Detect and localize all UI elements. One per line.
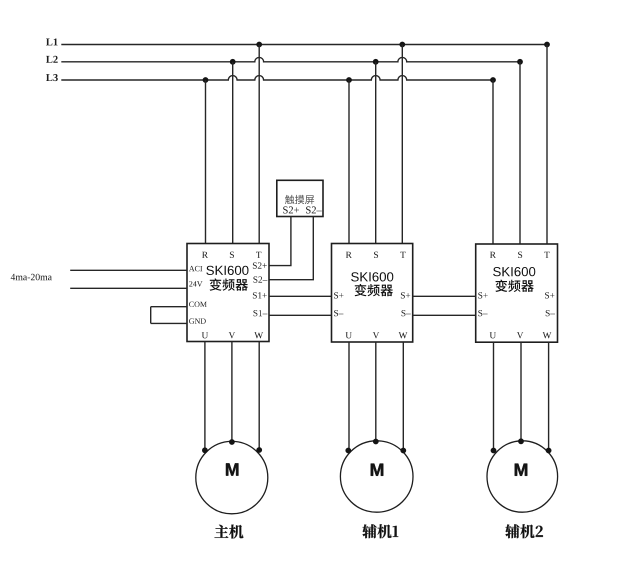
node: M2 W terminal bbox=[400, 448, 406, 454]
motor M3 bbox=[487, 441, 558, 512]
label: U1 变频器 bbox=[210, 278, 248, 290]
label L2 bbox=[46, 56, 58, 63]
wire: panel S2- to U1 S2- bbox=[269, 217, 313, 280]
pin label U3 S+ left bbox=[478, 292, 487, 298]
wire: 24V input bbox=[70, 287, 187, 289]
pin label U1 ACI bbox=[189, 266, 202, 271]
wire: U1 W to M1 bbox=[258, 342, 260, 451]
label: U3 变频器 bbox=[495, 280, 533, 292]
node: junction L2/U3-S bbox=[517, 59, 523, 65]
label: M2 M bbox=[371, 464, 383, 476]
pin label U3 T bbox=[544, 252, 549, 258]
pin label U3 S+ right bbox=[545, 292, 554, 298]
wire: L1 phase rail bbox=[61, 44, 547, 46]
inverter U1 box bbox=[187, 244, 269, 342]
inverter U3 box bbox=[476, 244, 558, 342]
wire: U1 S1- to U2 S- bbox=[269, 314, 332, 316]
label L1 bbox=[46, 39, 58, 46]
pin label U1 S bbox=[230, 252, 234, 258]
pin label U1 S1+ bbox=[253, 292, 267, 298]
wire: U2 V to M2 bbox=[375, 342, 377, 442]
label: M1 M bbox=[226, 463, 238, 475]
wire: U2 W to M2 bbox=[402, 342, 404, 451]
wire: L1 to U1 T bbox=[258, 45, 260, 244]
pin label U2 W bbox=[399, 332, 408, 338]
node: M3 V terminal bbox=[518, 438, 524, 444]
label: U2 SKI600 bbox=[351, 272, 393, 281]
motor M1 bbox=[196, 441, 268, 513]
wire: L3 phase rail bbox=[61, 76, 493, 80]
label: 4ma-20ma bbox=[11, 274, 52, 281]
pin label U1 W bbox=[254, 332, 263, 338]
pin label U3 V bbox=[517, 332, 524, 338]
pin label U2 V bbox=[373, 332, 380, 338]
pin label U1 COM bbox=[189, 302, 207, 307]
wire: U2 U to M2 bbox=[348, 342, 350, 451]
label: U3 SKI600 bbox=[493, 267, 535, 276]
wire: L1 to U2 T bbox=[401, 45, 403, 244]
wire: L2 to U1 S bbox=[232, 62, 234, 244]
wire: L2 to U2 S bbox=[375, 62, 377, 244]
node: junction L1/U3-T bbox=[544, 42, 550, 48]
wire: L3 to U3 R bbox=[492, 80, 494, 244]
label: M3 辅机2 bbox=[505, 524, 543, 538]
motor M2 bbox=[340, 441, 413, 512]
node: junction L3/U3-R bbox=[490, 77, 496, 83]
pin label S2+ (panel) bbox=[283, 206, 299, 213]
pin label U2 U bbox=[346, 332, 352, 338]
pin label U1 S1- bbox=[253, 310, 267, 316]
pin label U1 S2+ bbox=[253, 262, 267, 268]
pin label S2- (panel) bbox=[306, 206, 322, 213]
node: junction L3/U2-R bbox=[346, 77, 352, 83]
node: M3 W terminal bbox=[546, 448, 552, 454]
wire: U1 U to M1 bbox=[204, 342, 206, 451]
pin label U1 S2- bbox=[253, 276, 267, 282]
pin label U1 T bbox=[256, 252, 261, 258]
inverter U2 box bbox=[332, 244, 413, 343]
pin label U2 S- right bbox=[402, 310, 411, 316]
wire: U2 S- to U3 S- bbox=[413, 314, 476, 316]
pin label U3 S bbox=[518, 252, 522, 258]
wire: L3 to U1 R bbox=[205, 80, 207, 244]
pin label U1 V bbox=[229, 332, 236, 338]
wire: U3 W to M3 bbox=[548, 342, 550, 450]
node: M1 W terminal bbox=[256, 447, 262, 453]
wire: U1 S1+ to U2 S+ bbox=[269, 295, 332, 297]
node: M2 U terminal bbox=[345, 448, 351, 454]
pin label U2 S+ right bbox=[401, 292, 410, 298]
pin label U3 R bbox=[490, 252, 496, 258]
pin label U2 S bbox=[374, 252, 378, 258]
pin label U3 S- right bbox=[546, 310, 555, 316]
pin label U3 W bbox=[543, 332, 552, 338]
wire: COM-GND link bbox=[150, 307, 152, 324]
wire: U3 V to M3 bbox=[520, 342, 522, 441]
pin label U1 24V bbox=[189, 281, 202, 286]
label: M1 主机 bbox=[215, 525, 244, 539]
label: U1 SKI600 bbox=[206, 266, 248, 275]
node: junction L1/U2-T bbox=[399, 42, 405, 48]
node: junction L3/U1-R bbox=[203, 77, 209, 83]
pin label U2 T bbox=[400, 252, 405, 258]
pin label U3 S- left bbox=[478, 310, 487, 316]
node: M3 U terminal bbox=[491, 448, 497, 454]
wire: ACI input bbox=[70, 269, 187, 271]
label L3 bbox=[46, 74, 58, 81]
pin label U2 R bbox=[346, 252, 352, 258]
label: M3 M bbox=[515, 464, 527, 476]
node: junction L1/U1-T bbox=[256, 42, 262, 48]
pin label U1 GND bbox=[189, 318, 206, 323]
node: M1 V terminal bbox=[229, 439, 235, 445]
wire: L1 to U3 T bbox=[546, 45, 548, 245]
pin label U2 S- left bbox=[334, 310, 343, 316]
node: junction L2/U1-S bbox=[230, 59, 236, 65]
label: touch panel 触摸屏 bbox=[285, 195, 314, 204]
label: U2 变频器 bbox=[355, 284, 393, 296]
node: M1 U terminal bbox=[202, 447, 208, 453]
wire: U3 U to M3 bbox=[493, 342, 495, 450]
wire: L3 to U2 R bbox=[348, 80, 350, 244]
node: M2 V terminal bbox=[373, 439, 379, 445]
wire: U2 S+ to U3 S+ bbox=[413, 295, 476, 297]
node: junction L2/U2-S bbox=[373, 59, 379, 65]
label: M2 辅机1 bbox=[363, 524, 399, 538]
pin label U1 U bbox=[202, 332, 208, 338]
wire: L2 to U3 S bbox=[519, 62, 521, 244]
wire: panel S2+ to U1 S2+ bbox=[269, 217, 291, 266]
wire: L2 phase rail bbox=[61, 57, 520, 61]
pin label U2 S+ left bbox=[334, 292, 343, 298]
wire: COM stub bbox=[151, 306, 187, 308]
wire: U1 V to M1 bbox=[231, 342, 233, 443]
pin label U3 U bbox=[490, 332, 496, 338]
touch panel box bbox=[277, 180, 323, 216]
wire: GND stub bbox=[151, 322, 187, 324]
pin label U1 R bbox=[202, 252, 208, 258]
